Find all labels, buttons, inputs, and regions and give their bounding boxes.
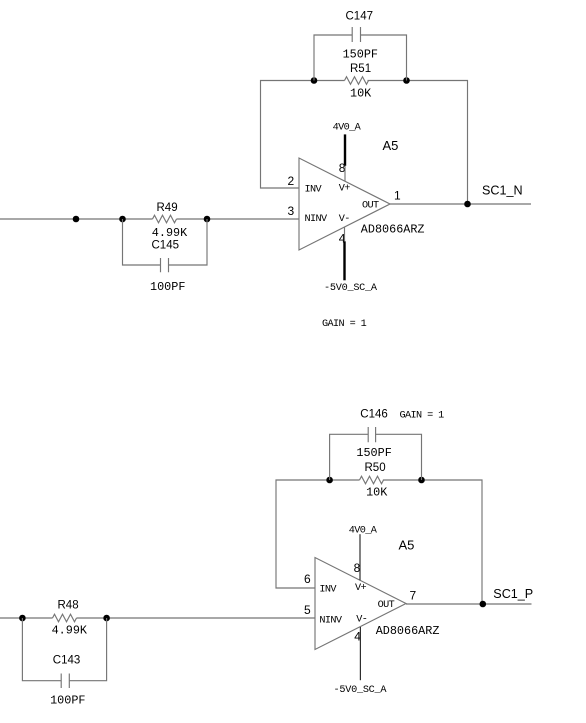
node junction output bottom <box>480 601 487 608</box>
wire main input top <box>0 218 299 220</box>
pin 8 label <box>339 161 346 175</box>
pin 1 label <box>394 189 401 203</box>
svg-text:C145: C145 <box>152 240 180 252</box>
svg-text:V+: V+ <box>355 583 367 594</box>
resistor R51 <box>345 63 373 101</box>
svg-text:150PF: 150PF <box>356 446 391 460</box>
svg-text:OUT: OUT <box>362 201 379 212</box>
svg-text:4.99K: 4.99K <box>152 226 188 240</box>
note GAIN = 1 bottom <box>400 411 445 422</box>
svg-text:INV: INV <box>319 585 337 596</box>
pin 8 label bottom <box>354 561 361 575</box>
node junction R50 right <box>418 477 425 484</box>
svg-text:10K: 10K <box>350 87 372 101</box>
power -5V0_SC_A bottom <box>334 627 388 696</box>
svg-text:GAIN = 1: GAIN = 1 <box>322 319 367 330</box>
pin 2 label <box>288 174 295 188</box>
svg-text:V-: V- <box>356 615 367 626</box>
svg-text:2: 2 <box>288 174 295 188</box>
svg-text:NINV: NINV <box>305 214 329 225</box>
node SC1_P <box>493 587 533 601</box>
svg-text:R50: R50 <box>365 462 386 474</box>
svg-text:4V0_A: 4V0_A <box>349 526 378 537</box>
svg-text:NINV: NINV <box>319 616 343 627</box>
node junction R51 left <box>311 77 318 84</box>
svg-text:1: 1 <box>394 189 401 203</box>
svg-text:3: 3 <box>288 204 295 218</box>
svg-text:INV: INV <box>305 185 323 196</box>
svg-text:V+: V+ <box>339 184 351 195</box>
note GAIN = 1 top <box>322 319 367 330</box>
node junction R48 left <box>19 615 26 622</box>
capacitor C143 <box>22 618 106 708</box>
node junction R49 right <box>204 216 211 223</box>
svg-text:4V0_A: 4V0_A <box>333 123 362 134</box>
op-amp U A5 bottom triangle <box>315 538 439 650</box>
pin 5 label <box>304 603 311 617</box>
svg-text:SC1_P: SC1_P <box>493 587 533 601</box>
svg-text:GAIN = 1: GAIN = 1 <box>400 411 445 422</box>
resistor R48 <box>52 600 88 638</box>
power 4V0_A bottom <box>349 526 378 581</box>
wire output top <box>390 203 531 205</box>
node junction R50 left <box>326 477 333 484</box>
svg-text:R49: R49 <box>157 202 178 214</box>
op-amp U A5 top triangle <box>299 138 425 250</box>
capacitor C146 <box>330 409 422 481</box>
svg-text:-5V0_SC_A: -5V0_SC_A <box>334 685 388 696</box>
svg-text:A5: A5 <box>399 538 415 553</box>
svg-text:R51: R51 <box>350 63 371 75</box>
svg-text:OUT: OUT <box>378 600 395 611</box>
capacitor C145 <box>123 219 208 294</box>
resistor R49 <box>152 202 188 240</box>
svg-text:4.99K: 4.99K <box>52 624 88 638</box>
node SC1_N <box>482 183 523 197</box>
wire main input bottom <box>0 617 315 619</box>
node junction R48 right <box>103 615 110 622</box>
node junction output top <box>464 201 471 208</box>
pin 4 label <box>339 232 346 246</box>
node junction dot left <box>73 216 80 223</box>
pin 6 label <box>304 572 311 586</box>
capacitor C147 <box>314 11 407 81</box>
svg-text:SC1_N: SC1_N <box>482 183 523 197</box>
wire inverting feedback left top <box>261 81 468 205</box>
svg-text:AD8066ARZ: AD8066ARZ <box>376 624 440 638</box>
svg-text:C147: C147 <box>346 11 374 23</box>
node junction R51 right <box>403 77 410 84</box>
svg-text:A5: A5 <box>383 138 399 153</box>
svg-text:150PF: 150PF <box>343 48 378 62</box>
svg-text:10K: 10K <box>366 486 388 500</box>
svg-text:7: 7 <box>410 589 417 603</box>
wire output bottom <box>406 603 532 605</box>
power 4V0_A top <box>333 123 362 182</box>
resistor R50 <box>360 462 389 500</box>
wire inverting feedback left bottom <box>276 480 482 604</box>
node junction R49 left <box>119 216 126 223</box>
svg-text:6: 6 <box>304 572 311 586</box>
svg-text:R48: R48 <box>58 600 79 612</box>
pin 7 label <box>410 589 417 603</box>
pin 4 label bottom <box>354 630 361 644</box>
svg-text:C143: C143 <box>53 655 81 667</box>
svg-text:5: 5 <box>304 603 311 617</box>
power -5V0_SC_A top <box>324 227 378 294</box>
svg-text:AD8066ARZ: AD8066ARZ <box>361 223 425 237</box>
svg-text:V-: V- <box>339 214 350 225</box>
svg-text:100PF: 100PF <box>50 694 85 708</box>
svg-text:100PF: 100PF <box>150 280 185 294</box>
pin 3 label <box>288 204 295 218</box>
svg-text:C146: C146 <box>360 409 388 421</box>
svg-text:-5V0_SC_A: -5V0_SC_A <box>324 283 378 294</box>
